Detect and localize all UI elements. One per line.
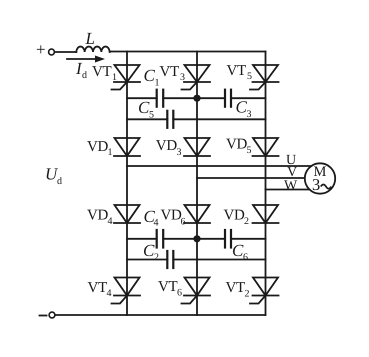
svg-text:VT: VT [92,64,112,80]
svg-text:VD: VD [87,139,109,155]
svg-text:VD: VD [226,137,248,153]
svg-text:VT: VT [160,64,180,80]
svg-text:6: 6 [181,217,186,228]
svg-text:2: 2 [154,252,159,263]
svg-text:3: 3 [177,147,182,158]
svg-text:VT: VT [226,280,246,296]
svg-text:5: 5 [247,145,252,156]
svg-text:d: d [57,176,62,187]
svg-text:d: d [82,70,87,81]
svg-text:6: 6 [177,288,182,299]
svg-text:1: 1 [112,72,117,83]
svg-text:1: 1 [108,147,113,158]
svg-text:+: + [36,40,45,59]
svg-text:3: 3 [247,109,252,120]
svg-text:3: 3 [312,175,320,194]
svg-text:VD: VD [224,208,246,224]
svg-text:W: W [284,178,298,193]
svg-text:6: 6 [243,252,248,263]
svg-text:VT: VT [88,280,108,296]
svg-text:2: 2 [245,289,250,300]
svg-text:4: 4 [107,288,112,299]
svg-text:4: 4 [154,218,159,229]
svg-text:VT: VT [158,279,178,295]
svg-text:5: 5 [149,110,154,121]
svg-text:4: 4 [108,216,113,227]
svg-text:VD: VD [161,208,183,224]
svg-text:L: L [85,29,95,48]
svg-text:VD: VD [87,208,109,224]
svg-text:VD: VD [156,138,178,154]
svg-text:5: 5 [247,71,252,82]
svg-text:2: 2 [244,216,249,227]
svg-text:3: 3 [180,72,185,83]
svg-text:VT: VT [227,63,247,79]
